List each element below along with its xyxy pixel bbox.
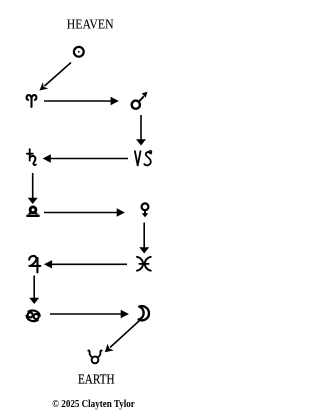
svg-text:EARTH: EARTH [78,373,115,388]
svg-text:HEAVEN: HEAVEN [67,17,114,32]
svg-text:© 2025 Clayten Tylor: © 2025 Clayten Tylor [52,399,135,410]
